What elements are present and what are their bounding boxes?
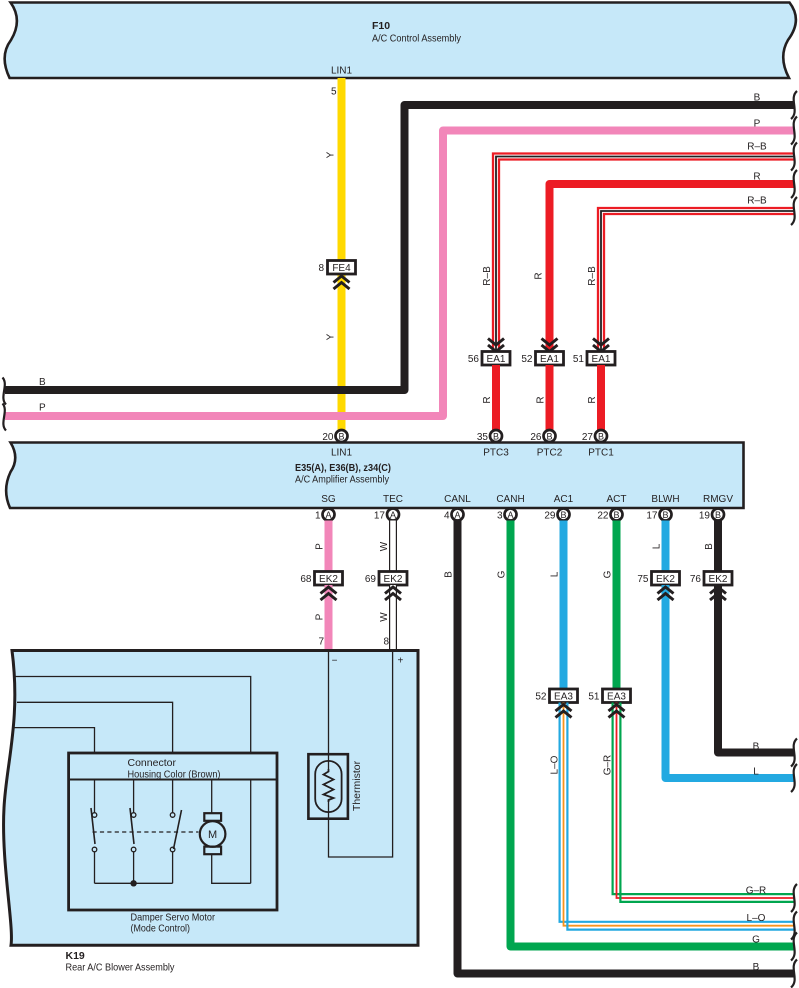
wire switch 2 feed — [133, 780, 135, 813]
svg-text:A/C Control Assembly: A/C Control Assembly — [372, 33, 462, 45]
wire W (white) TEC to EK2 pin 69 — [389, 521, 397, 573]
svg-text:A: A — [507, 510, 513, 520]
svg-text:LIN1: LIN1 — [331, 66, 353, 77]
wire R (red) to EA1 pin 52 — [550, 184, 795, 352]
svg-text:R: R — [587, 396, 598, 403]
chevrons of EK2 75 — [658, 587, 674, 600]
wire break mark, P left — [3, 404, 7, 431]
wire L (blue) EK2 75 to right edge — [666, 585, 795, 778]
svg-text:L: L — [550, 571, 561, 577]
svg-text:P: P — [39, 403, 46, 414]
svg-text:51: 51 — [573, 354, 585, 365]
wire break mark, G-R right — [791, 884, 797, 912]
svg-text:5: 5 — [331, 87, 337, 98]
svg-text:A: A — [454, 510, 460, 520]
connector EK2 pin 69 (chevrons up) — [365, 572, 407, 586]
svg-text:22: 22 — [597, 511, 609, 522]
svg-text:P: P — [315, 613, 326, 620]
svg-text:29: 29 — [544, 511, 556, 522]
svg-text:52: 52 — [535, 691, 547, 702]
wire G-R (green-red) EA3 51 to right edge — [613, 703, 794, 902]
wire switch 1 to common — [94, 852, 96, 883]
wire P (pink) to left edge — [5, 131, 794, 417]
terminal 20 (B) LIN1 — [322, 430, 347, 443]
svg-text:L: L — [652, 543, 663, 549]
wire B (black) F10-area to left edge — [5, 105, 794, 390]
svg-text:17: 17 — [646, 511, 658, 522]
svg-text:G: G — [752, 935, 760, 946]
terminal 17 (B) BLWH — [646, 509, 671, 522]
svg-text:B: B — [546, 431, 552, 441]
svg-text:B: B — [598, 431, 604, 441]
component K19 Rear A/C Blower Assembly box — [4, 651, 418, 946]
svg-text:Y: Y — [326, 151, 337, 158]
terminal 29 (B) AC1 — [544, 509, 569, 522]
svg-text:A/C Amplifier Assembly: A/C Amplifier Assembly — [295, 474, 390, 486]
wire break mark, B right (CANL) — [791, 960, 797, 988]
wire internal K19 line 2 (left edge to switch 3) — [17, 702, 173, 753]
svg-text:EK2: EK2 — [709, 574, 728, 585]
svg-text:A: A — [325, 510, 331, 520]
svg-text:EK2: EK2 — [656, 574, 675, 585]
svg-text:3: 3 — [497, 511, 503, 522]
svg-text:K19: K19 — [66, 950, 85, 962]
svg-text:P: P — [315, 543, 326, 550]
connector EK2 pin 76 (chevrons up) — [690, 572, 732, 586]
wire internal thermistor to pin 8 — [329, 652, 393, 858]
svg-text:B: B — [338, 431, 344, 441]
svg-text:27: 27 — [582, 432, 594, 443]
svg-text:8: 8 — [318, 263, 324, 274]
junction dot on common bus — [130, 880, 136, 886]
terminal 26 (B) PTC2 — [530, 430, 555, 443]
svg-text:69: 69 — [365, 574, 377, 585]
svg-text:TEC: TEC — [383, 494, 403, 505]
connector housing box (Damper Servo Motor) — [69, 753, 277, 910]
svg-text:F10: F10 — [372, 20, 390, 32]
terminal 35 (B) PTC3 — [477, 430, 502, 443]
svg-text:R–B: R–B — [747, 142, 767, 153]
svg-text:AC1: AC1 — [554, 494, 574, 505]
wire G (green) CANH to right edge — [511, 521, 795, 947]
svg-text:4: 4 — [444, 511, 450, 522]
svg-text:B: B — [754, 93, 761, 104]
svg-text:EA3: EA3 — [554, 691, 573, 702]
svg-text:26: 26 — [530, 432, 542, 443]
svg-text:B: B — [613, 510, 619, 520]
wire R from EA1 56 to amplifier PTC3 — [492, 365, 500, 443]
wire break mark, B right (RMGV) — [791, 739, 797, 767]
wire G (green) ACT to EA3 pin 51 — [613, 521, 621, 690]
wire internal K19 line 3 (left edge to switch 1) — [14, 728, 95, 753]
svg-text:FE4: FE4 — [332, 263, 351, 274]
svg-text:W: W — [379, 541, 390, 551]
chevrons of EK2 69 — [385, 587, 401, 600]
connector housing header divider — [69, 779, 277, 781]
svg-text:R–B: R–B — [747, 196, 767, 207]
svg-text:EA3: EA3 — [607, 691, 626, 702]
svg-text:52: 52 — [521, 354, 533, 365]
connector EK2 pin 75 (chevrons up) — [637, 572, 679, 586]
chevrons of EK2 68 — [321, 587, 337, 600]
wire break mark, R right — [791, 170, 797, 198]
svg-text:M: M — [208, 829, 217, 841]
svg-text:Rear A/C Blower Assembly: Rear A/C Blower Assembly — [66, 962, 176, 974]
svg-text:EA1: EA1 — [540, 354, 559, 365]
svg-text:R–B: R–B — [587, 266, 598, 286]
svg-text:17: 17 — [374, 511, 386, 522]
wire Y (yellow) from F10 pin 5 to amplifier LIN1 — [338, 78, 346, 443]
svg-text:B: B — [444, 571, 455, 578]
svg-text:ACT: ACT — [607, 494, 627, 505]
terminal 17 (A) TEC — [374, 509, 399, 522]
svg-text:68: 68 — [300, 574, 312, 585]
switch S2 (contacts and lever) — [130, 808, 136, 852]
wire R-B no.1 (red with black tracer) to EA1 pin 56 — [493, 154, 794, 352]
svg-text:A: A — [390, 510, 396, 520]
terminal 4 (A) CANL — [444, 509, 464, 522]
wire break mark, G right (CANH) — [791, 933, 797, 961]
thermistor zigzag element — [324, 769, 334, 802]
chevrons of EA3 52 — [556, 705, 572, 718]
svg-text:P: P — [754, 119, 761, 130]
dashed mechanical link to motor — [93, 831, 199, 833]
svg-text:Housing Color (Brown): Housing Color (Brown) — [128, 769, 221, 781]
svg-text:R: R — [753, 172, 760, 183]
wire R from EA1 51 to amplifier PTC1 — [597, 365, 605, 443]
svg-text:CANL: CANL — [444, 494, 471, 505]
svg-text:B: B — [39, 377, 46, 388]
svg-text:B: B — [753, 742, 760, 753]
label Connector Housing Color (Brown) — [128, 757, 221, 781]
svg-text:E35(A), E36(B), z34(C): E35(A), E36(B), z34(C) — [295, 462, 391, 474]
wire B (black) CANL to right edge — [458, 521, 795, 974]
svg-text:EK2: EK2 — [384, 574, 403, 585]
wire break mark, L right (BLWH) — [791, 764, 797, 792]
svg-text:1: 1 — [315, 511, 321, 522]
connector EA3 pin 52 (chevrons up below box) — [535, 689, 577, 703]
motor M (armature and brushes) — [200, 813, 226, 854]
svg-text:R–B: R–B — [482, 266, 493, 286]
switch S1 (contacts and lever) — [91, 808, 97, 852]
wire R-B no.2 (red with black tracer) to EA1 pin 51 — [598, 208, 794, 352]
wire L (blue) AC1 to EA3 pin 52 — [560, 521, 568, 690]
chevrons of EK2 76 — [710, 587, 726, 600]
svg-text:51: 51 — [588, 691, 600, 702]
svg-text:CANH: CANH — [496, 494, 524, 505]
terminal 27 (B) PTC1 — [582, 430, 607, 443]
svg-text:PTC1: PTC1 — [588, 448, 614, 459]
svg-text:LIN1: LIN1 — [331, 448, 353, 459]
wire motor feed — [211, 780, 213, 813]
svg-text:G: G — [603, 570, 614, 578]
svg-text:56: 56 — [468, 354, 480, 365]
svg-text:R: R — [482, 396, 493, 403]
wire switch 2 to common — [133, 852, 135, 883]
wire W (white) EK2 69 to K19 pin 8 — [389, 585, 397, 650]
chevrons of EA3 51 — [609, 705, 625, 718]
svg-text:EA1: EA1 — [592, 354, 611, 365]
svg-text:Y: Y — [326, 333, 337, 340]
connector EA1 pin 52 — [521, 339, 563, 366]
thermistor capsule — [315, 761, 341, 812]
svg-text:R: R — [534, 272, 545, 279]
wire break mark, L-O right — [791, 912, 797, 940]
svg-text:EA1: EA1 — [487, 354, 506, 365]
svg-text:B: B — [753, 962, 760, 973]
wire L-O (blue-orange) EA3 52 to right edge — [560, 703, 794, 930]
connector EA3 pin 51 (chevrons up below box) — [588, 689, 630, 703]
terminal 3 (A) CANH — [497, 509, 517, 522]
svg-text:G–R: G–R — [746, 886, 767, 897]
svg-text:Thermistor: Thermistor — [351, 760, 363, 811]
svg-text:20: 20 — [322, 432, 334, 443]
wire P (pink) SG to EK2 pin 68 — [325, 521, 333, 573]
svg-text:PTC2: PTC2 — [537, 448, 563, 459]
terminal 1 (A) SG — [315, 509, 335, 522]
svg-text:19: 19 — [699, 511, 711, 522]
wire L (blue) BLWH to EK2 pin 75 — [662, 521, 670, 573]
component F10 A/C Control Assembly banner — [5, 3, 796, 79]
wire break mark, B right (top) — [791, 91, 797, 119]
wire internal K19 line 1 (left edge to motor return) — [14, 677, 251, 754]
terminal 19 (B) RMGV — [699, 509, 724, 522]
svg-text:B: B — [715, 510, 721, 520]
svg-text:G–R: G–R — [603, 755, 614, 776]
svg-text:L: L — [753, 767, 759, 778]
svg-text:−: − — [332, 656, 338, 667]
wire switch 3 feed — [172, 780, 174, 813]
svg-text:B: B — [493, 431, 499, 441]
wire internal from pin 7 to thermistor — [328, 652, 330, 770]
svg-text:7: 7 — [318, 637, 324, 648]
wire B (black) EK2 76 to right edge — [718, 585, 794, 753]
wire motor return riser — [250, 780, 252, 883]
connector FE4 pin 8 (inline, chevrons up) — [318, 261, 355, 290]
svg-text:75: 75 — [637, 574, 649, 585]
svg-text:EK2: EK2 — [319, 574, 338, 585]
label Damper Servo Motor (Mode Control) — [131, 912, 216, 935]
svg-text:(Mode Control): (Mode Control) — [131, 923, 191, 935]
connector EA1 pin 51 — [573, 339, 615, 366]
svg-text:76: 76 — [690, 574, 702, 585]
svg-text:RMGV: RMGV — [703, 494, 733, 505]
svg-text:B: B — [704, 543, 715, 550]
svg-text:35: 35 — [477, 432, 489, 443]
svg-text:8: 8 — [383, 637, 389, 648]
wire break mark, R-B right (no.2) — [791, 197, 797, 225]
wire break mark, R-B right (no.1) — [791, 143, 797, 171]
svg-text:B: B — [560, 510, 566, 520]
svg-text:PTC3: PTC3 — [483, 448, 509, 459]
svg-text:L–O: L–O — [550, 755, 561, 774]
wire switch 1 feed — [94, 780, 96, 813]
wire motor bottom to return riser — [212, 854, 251, 883]
svg-text:L–O: L–O — [747, 913, 766, 924]
svg-text:B: B — [662, 510, 668, 520]
component E35(A), E36(B), z34(C) A/C Amplifier Assembly band — [6, 443, 743, 509]
terminal 22 (B) ACT — [597, 509, 622, 522]
connector EK2 pin 68 (chevrons up) — [300, 572, 342, 586]
svg-text:R: R — [536, 396, 547, 403]
wire switch common bus — [95, 882, 173, 884]
wire B (black) RMGV to EK2 pin 76 — [714, 521, 722, 573]
wire break mark, P right — [791, 117, 797, 145]
wire P (pink) EK2 68 to K19 pin 7 — [325, 585, 333, 650]
svg-text:Connector: Connector — [128, 757, 177, 769]
wire R from EA1 52 to amplifier PTC2 — [546, 365, 554, 443]
wire break mark, B left (top black) — [3, 378, 7, 405]
svg-text:G: G — [497, 570, 508, 578]
wire switch 3 to common — [172, 852, 174, 883]
svg-text:SG: SG — [321, 494, 336, 505]
thermistor (outer box) — [308, 754, 348, 819]
svg-text:W: W — [379, 612, 390, 622]
switch S3 (contacts and lever) — [170, 810, 181, 852]
svg-text:+: + — [397, 656, 403, 667]
connector EA1 pin 56 (chevrons down into box) — [468, 339, 510, 366]
svg-text:BLWH: BLWH — [651, 494, 679, 505]
